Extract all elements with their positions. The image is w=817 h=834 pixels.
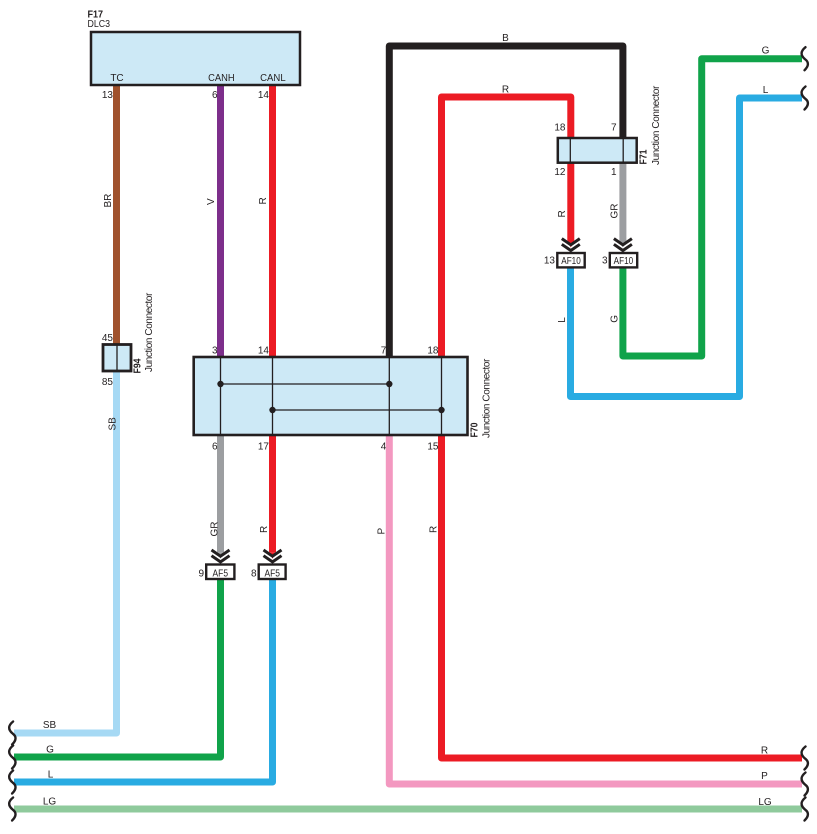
svg-text:DLC3: DLC3 (88, 19, 111, 30)
svg-text:6: 6 (212, 90, 218, 101)
svg-text:14: 14 (258, 346, 270, 357)
svg-text:17: 17 (258, 442, 270, 453)
break symbol R bottom right (802, 747, 808, 770)
svg-text:R: R (259, 526, 270, 533)
connector F70 box (194, 357, 468, 435)
svg-text:3: 3 (212, 346, 218, 357)
svg-text:R: R (258, 197, 269, 204)
svg-text:SB: SB (108, 417, 119, 431)
svg-text:L: L (763, 85, 769, 96)
break symbol LG bottom right (802, 798, 808, 821)
svg-text:BR: BR (103, 194, 114, 208)
break symbol G bottom left (9, 746, 15, 769)
svg-text:Junction Connector: Junction Connector (144, 292, 155, 372)
connector F17 DLC3 box (91, 32, 300, 85)
wire GR gray from F71 pin 1 down to AF10 3 (619, 162, 626, 241)
svg-text:P: P (377, 528, 388, 535)
wire P pink from F70 pin 4 down to bottom-right break (389, 435, 802, 784)
chevron arrow at AF5 9 (212, 550, 230, 562)
wire R red from DLC3 CANL pin 14 to F70 pin 14 (269, 85, 276, 357)
connector F71 box (558, 138, 637, 163)
splice box AF5 9 (206, 565, 234, 580)
svg-text:3: 3 (602, 256, 608, 267)
wire G green from AF10 3 down, right, up to top-right break (623, 59, 802, 356)
svg-text:F70: F70 (470, 422, 481, 437)
svg-text:45: 45 (102, 333, 114, 344)
svg-text:4: 4 (381, 442, 387, 453)
svg-text:AF5: AF5 (264, 568, 280, 580)
svg-text:G: G (46, 745, 54, 756)
break symbol L bottom left (9, 771, 15, 794)
svg-text:85: 85 (102, 377, 114, 388)
svg-text:13: 13 (102, 90, 114, 101)
wire R red from F70 pin 15 down to bottom-right break (442, 435, 803, 758)
svg-text:13: 13 (544, 256, 556, 267)
wire V violet from DLC3 CANH pin 6 to F70 pin 3 (217, 85, 224, 357)
svg-text:AF10: AF10 (561, 255, 581, 267)
divider F71 right (622, 138, 624, 163)
arrow tip gray wire 2 (217, 552, 224, 559)
svg-text:L: L (48, 770, 54, 781)
svg-text:V: V (206, 198, 217, 205)
svg-text:R: R (761, 746, 768, 757)
svg-text:Junction Connector: Junction Connector (482, 358, 493, 438)
svg-text:B: B (502, 33, 509, 44)
internal line pin18-15 (441, 357, 443, 435)
wire G green from AF5 9 down to bottom-left break (14, 579, 221, 757)
wire R red from F70 pin 17 down to AF5 8 (269, 435, 276, 552)
svg-text:G: G (610, 315, 621, 323)
svg-text:1: 1 (611, 167, 617, 178)
arrow tip red wire (567, 241, 574, 248)
svg-text:CANL: CANL (260, 73, 286, 84)
chevron arrow at AF5 8 (264, 550, 282, 562)
connector F94 box (103, 345, 131, 372)
svg-text:P: P (761, 771, 768, 782)
wire B black from F70 pin 7 up and over to F71 pin 7 (389, 46, 623, 357)
svg-text:18: 18 (554, 123, 566, 134)
svg-text:F94: F94 (133, 358, 144, 373)
internal line pin14-17 (272, 357, 274, 435)
svg-text:CANH: CANH (208, 73, 235, 84)
divider F71 left (569, 138, 571, 163)
break symbol P bottom right (802, 773, 808, 796)
svg-text:8: 8 (251, 569, 257, 580)
splice box AF10 13 (557, 253, 584, 267)
svg-text:18: 18 (427, 346, 439, 357)
chevron arrow at AF10 13 (562, 239, 580, 251)
svg-text:GR: GR (210, 522, 221, 537)
svg-text:12: 12 (554, 167, 566, 178)
svg-text:14: 14 (258, 90, 270, 101)
splice box AF5 8 (259, 565, 286, 580)
chevron arrow at AF10 3 (614, 239, 632, 251)
svg-text:G: G (762, 46, 770, 57)
svg-text:SB: SB (43, 720, 57, 731)
wire GR gray from F70 pin 6 down to AF5 9 (217, 435, 224, 552)
svg-text:AF5: AF5 (213, 568, 229, 580)
svg-text:L: L (557, 317, 568, 323)
svg-text:9: 9 (198, 569, 204, 580)
break symbol SB bottom left (9, 722, 15, 745)
svg-text:Junction Connector: Junction Connector (651, 85, 662, 165)
wire R red from F70 pin 18 up and over to F71 pin 18 (442, 97, 571, 357)
arrow tip gray wire (619, 241, 626, 248)
svg-text:AF10: AF10 (614, 255, 634, 267)
internal bus line 2 (273, 409, 442, 411)
svg-text:TC: TC (110, 73, 123, 84)
wire L blue from AF10 13 down, right, up to top-right break (571, 98, 803, 397)
wire LG light green across bottom (14, 806, 802, 813)
internal line pin7-4 (388, 357, 390, 435)
svg-text:R: R (429, 526, 440, 533)
wire L blue from AF5 8 down to bottom-left break (14, 579, 273, 782)
junction dot A (217, 381, 223, 387)
svg-text:7: 7 (611, 123, 617, 134)
svg-text:LG: LG (43, 797, 57, 808)
junction dot B (386, 381, 392, 387)
splice box AF10 3 (610, 253, 637, 267)
svg-text:15: 15 (427, 442, 439, 453)
svg-text:R: R (502, 85, 509, 96)
wire R red from F71 pin 12 down to AF10 13 (567, 162, 574, 241)
junction dot D (438, 407, 444, 413)
internal bus line 1 (221, 383, 390, 385)
arrow tip red wire 2 (269, 552, 276, 559)
svg-text:6: 6 (212, 442, 218, 453)
junction dot C (269, 407, 275, 413)
wire BR brown from DLC3 TC pin 13 to F94 pin 45 (113, 85, 120, 346)
svg-text:7: 7 (381, 346, 387, 357)
svg-text:GR: GR (610, 204, 621, 219)
internal line pin3-6 (220, 357, 222, 435)
wire SB light blue from F94 pin 85 to left break (14, 370, 117, 733)
svg-text:F71: F71 (639, 149, 650, 164)
break symbol L top right (802, 87, 808, 110)
svg-text:LG: LG (758, 797, 772, 808)
break symbol G top right (802, 47, 808, 70)
divider F94 (116, 345, 118, 370)
break symbol LG bottom left (9, 798, 15, 821)
svg-text:R: R (557, 210, 568, 217)
